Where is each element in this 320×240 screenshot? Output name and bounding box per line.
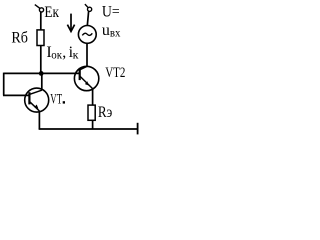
source uвх (AC) — [78, 26, 96, 44]
svg-text:Rэ: Rэ — [98, 104, 113, 121]
resistor Rб — [37, 30, 44, 46]
svg-text:U=: U= — [102, 4, 120, 21]
svg-text:вх: вх — [110, 26, 121, 40]
node junction dot — [39, 71, 44, 76]
wire VT2 emitter down — [92, 88, 94, 105]
resistor Rэ — [88, 105, 95, 120]
wire source to VT2 collector — [86, 43, 88, 66]
wire Rэ to rail — [92, 120, 94, 129]
svg-text:VT2: VT2 — [105, 65, 125, 81]
terminal U= — [85, 4, 92, 11]
wire terminal to source — [87, 11, 88, 25]
transistor VT2 — [74, 66, 98, 90]
wire top horizontal node to VT2 base — [4, 72, 80, 74]
label VT1 — [50, 92, 65, 108]
wire left drop — [3, 73, 5, 96]
svg-text:,: , — [62, 44, 66, 61]
arrow down current — [67, 14, 74, 32]
transistor VT1 — [25, 88, 49, 112]
label uвх — [102, 22, 121, 40]
svg-text:u: u — [102, 22, 110, 39]
svg-text:ок: ок — [51, 47, 62, 61]
svg-text:VT: VT — [50, 92, 62, 108]
terminal Eк — [35, 5, 44, 12]
svg-text:к: к — [73, 47, 79, 61]
wire VT1 collector up — [41, 73, 43, 90]
wire VT1 base — [3, 94, 29, 96]
svg-text:Rб: Rб — [11, 29, 28, 46]
wire bottom rail — [39, 128, 138, 130]
wire Rб to node — [40, 46, 42, 74]
wire VT1 emitter down — [38, 111, 40, 129]
svg-text:Eк: Eк — [44, 4, 59, 21]
terminal end tick — [137, 123, 139, 135]
label Iок, iк — [46, 44, 78, 62]
wire terminal to Rб — [40, 12, 42, 30]
